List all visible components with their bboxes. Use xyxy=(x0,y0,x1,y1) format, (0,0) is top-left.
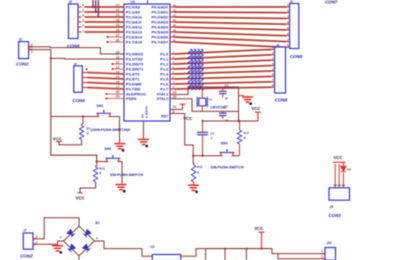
svg-text:P0.5/AD5: P0.5/AD5 xyxy=(152,30,170,34)
svg-text:P2.4/A12: P2.4/A12 xyxy=(126,25,142,29)
wire filter cap drop 2 xyxy=(224,249,226,260)
stub wires pins 27 28 xyxy=(107,36,124,38)
ground below U1 xyxy=(138,138,149,140)
svg-text:CON8: CON8 xyxy=(290,54,303,59)
svg-text:C1: C1 xyxy=(225,84,229,88)
connector J5 pin stubs and numbers xyxy=(286,6,289,8)
svg-text:R13: R13 xyxy=(99,166,105,170)
svg-text:J12: J12 xyxy=(326,241,332,245)
connector J7 pin stubs xyxy=(33,238,37,240)
svg-text:CON2: CON2 xyxy=(20,253,33,258)
wires U1 P0 port to connector J5 xyxy=(170,6,175,8)
wire bridge left vertex to ground xyxy=(58,241,64,245)
push switch SW3 xyxy=(105,157,120,159)
svg-text:P2.6/A14: P2.6/A14 xyxy=(126,35,143,39)
svg-text:4: 4 xyxy=(286,21,289,25)
svg-text:P3.3/INT1: P3.3/INT1 xyxy=(126,67,144,71)
svg-text:PSEN: PSEN xyxy=(126,97,137,101)
wire VCC rail to connector J12 pin1 xyxy=(272,249,325,254)
wire vertical from top edge to P2.2 node xyxy=(97,0,99,17)
svg-text:J6: J6 xyxy=(276,43,280,47)
svg-text:J1: J1 xyxy=(19,38,23,42)
connector J6 CON8 body lower right xyxy=(275,47,286,93)
regulator U2 pin stubs xyxy=(147,255,152,257)
wire long rail from J1 down to switch SW3 area xyxy=(51,58,97,161)
wire J1 pin2 to U1 RXD pin10 xyxy=(33,47,124,54)
svg-text:P1.4: P1.4 xyxy=(160,72,169,76)
svg-text:B1: B1 xyxy=(95,221,99,225)
svg-text:VCC: VCC xyxy=(254,226,263,231)
svg-text:P1.7: P1.7 xyxy=(160,87,168,91)
svg-text:E 89C51: E 89C51 xyxy=(145,106,149,118)
svg-text:-: - xyxy=(82,254,83,258)
svg-text:P2.0/A8: P2.0/A8 xyxy=(126,5,141,9)
wire R1 to VCC stub xyxy=(59,140,82,145)
resistor R1 xyxy=(82,117,84,125)
svg-text:2: 2 xyxy=(286,9,289,13)
svg-text:R16: R16 xyxy=(197,165,203,169)
wire filter cap drop 3 xyxy=(245,249,247,260)
svg-text:19: 19 xyxy=(173,90,177,94)
svg-text:+: + xyxy=(60,236,62,240)
svg-text:2: 2 xyxy=(81,24,84,28)
resistor R17 xyxy=(237,130,241,144)
mcu U1 VCC pin 40 wire to top edge xyxy=(147,0,149,4)
wire U1 GND pin20 down xyxy=(143,121,145,139)
wire J1 pin1 to rail and U1 TXD pin11 xyxy=(33,50,124,59)
wire RST pin9 down to reset network xyxy=(170,114,194,166)
ground for crystal caps xyxy=(239,95,245,97)
svg-text:XTAL2: XTAL2 xyxy=(156,97,168,101)
svg-text:P0.4/AD4: P0.4/AD4 xyxy=(152,25,170,29)
svg-text:P2.7/A15: P2.7/A15 xyxy=(126,40,143,44)
connector J7 CON2 body xyxy=(23,233,33,249)
svg-text:CON4: CON4 xyxy=(72,98,85,103)
wire U2 output to VCC rail xyxy=(186,249,206,257)
svg-text:CON2: CON2 xyxy=(16,61,29,66)
wires J4 to U1 P3 pins 14-17 xyxy=(82,72,87,74)
svg-text:P3.0/RXD: P3.0/RXD xyxy=(126,52,143,56)
svg-text:P1.1: P1.1 xyxy=(160,57,169,61)
bridge rectifier B1 diamond xyxy=(64,226,95,256)
wires J2 to U1 P2 pins xyxy=(85,6,125,8)
wire R16 to ground xyxy=(193,182,195,185)
svg-text:J7: J7 xyxy=(23,229,27,233)
connector J1 CON2 body xyxy=(19,42,29,59)
svg-text:P3.4/T0: P3.4/T0 xyxy=(126,72,139,76)
push switch SW2 xyxy=(96,112,111,114)
svg-text:(2SW-PUSH-SWITCH(6: (2SW-PUSH-SWITCH(6 xyxy=(91,128,131,132)
svg-text:P1.3: P1.3 xyxy=(160,67,168,71)
capacitor C2 xyxy=(219,112,227,114)
svg-text:ALE/PROG: ALE/PROG xyxy=(126,92,146,96)
svg-text:2: 2 xyxy=(35,234,38,238)
crystal Y1 xyxy=(199,98,206,106)
svg-text:1P: 1P xyxy=(225,118,228,122)
capacitor C1 xyxy=(219,90,227,92)
svg-text:SW4: SW4 xyxy=(221,142,228,146)
svg-text:CON3: CON3 xyxy=(328,213,341,218)
svg-text:P0.0/AD0: P0.0/AD0 xyxy=(152,5,169,9)
connector J4 pin1 marker xyxy=(86,68,88,70)
svg-text:U1: U1 xyxy=(131,0,136,4)
svg-text:U2: U2 xyxy=(150,245,154,249)
connector J1 pin stubs xyxy=(29,46,34,48)
svg-text:P2.1/A9: P2.1/A9 xyxy=(126,10,140,14)
wires U1 P1 port to connector J6 xyxy=(170,53,175,55)
svg-text:D5: D5 xyxy=(347,167,351,171)
wire EA pin31 to VCC tick xyxy=(170,109,183,111)
svg-text:-: - xyxy=(74,222,75,226)
resistor R16 xyxy=(191,165,195,182)
wire SW3 right post to ground xyxy=(120,162,122,185)
svg-text:VCC: VCC xyxy=(53,136,62,141)
wires J9 pins up xyxy=(334,164,336,188)
push switch SW4 xyxy=(220,152,235,154)
wire XTAL1 to crystal top rail xyxy=(170,94,175,96)
svg-text:P0.6/AD6: P0.6/AD6 xyxy=(152,35,169,39)
svg-text:RST: RST xyxy=(161,115,169,119)
svg-text:4: 4 xyxy=(271,62,274,66)
connector J6 pin stubs and numbers xyxy=(271,48,274,50)
wire vertical from top edge to P2.1 node xyxy=(95,0,97,12)
svg-text:+: + xyxy=(96,236,98,240)
regulator U2 7805 body xyxy=(152,255,181,260)
svg-text:P1.6: P1.6 xyxy=(160,82,168,86)
bridge diode D1 xyxy=(67,229,75,237)
svg-text:P3.6/WR: P3.6/WR xyxy=(126,82,142,86)
wire rail to SW2 xyxy=(51,116,97,118)
wire bridge bottom vertex down xyxy=(78,256,80,260)
svg-text:P2.2/A10: P2.2/A10 xyxy=(126,15,142,19)
bridge diode D4 xyxy=(68,244,76,252)
bridge diode D3 xyxy=(83,244,91,252)
wire to connector J12 pin2 xyxy=(278,254,325,259)
ground below SW2 xyxy=(114,143,125,145)
connector J4 CON4 body xyxy=(74,66,83,93)
svg-text:31: 31 xyxy=(173,105,177,109)
svg-text:R17: R17 xyxy=(244,131,250,135)
svg-text:SW-PUSH-SWITCH: SW-PUSH-SWITCH xyxy=(110,173,143,177)
svg-text:P2.5/A13: P2.5/A13 xyxy=(126,30,142,34)
svg-text:CON7: CON7 xyxy=(325,0,338,4)
connector J12 body xyxy=(325,248,336,260)
wire vertical from top edge to P2.0 node xyxy=(92,0,94,7)
svg-text:J4: J4 xyxy=(74,62,78,66)
svg-text:P0.3/AD3: P0.3/AD3 xyxy=(152,20,169,24)
pin entry ticks on J9 xyxy=(334,184,337,186)
svg-text:P2.3/A11: P2.3/A11 xyxy=(126,20,143,24)
svg-text:P3.1/TXD: P3.1/TXD xyxy=(126,57,143,61)
ground below R16 xyxy=(188,184,199,186)
connector J2 CON6 body xyxy=(69,4,79,39)
svg-text:P3.7/RD: P3.7/RD xyxy=(126,87,141,91)
svg-text:VCC: VCC xyxy=(333,155,342,160)
wire J7 pin1 to ground xyxy=(37,244,58,245)
svg-text:EA: EA xyxy=(141,113,145,118)
svg-text:C2: C2 xyxy=(224,105,228,109)
stub wires ALE PSEN pins 30 29 xyxy=(106,93,124,95)
power VCC stub bottom xyxy=(261,232,263,248)
svg-text:VCC: VCC xyxy=(251,106,260,111)
wire XTAL2 to crystal bottom rail xyxy=(170,98,175,100)
svg-text:J9: J9 xyxy=(330,205,334,209)
svg-text:P3.5/T1: P3.5/T1 xyxy=(126,77,140,81)
wire SW2 to ground xyxy=(111,117,119,144)
wire crystal right vertical xyxy=(238,87,240,121)
svg-text:VCC: VCC xyxy=(76,196,85,201)
svg-text:P3.2/INT0: P3.2/INT0 xyxy=(126,62,143,66)
svg-text:J2: J2 xyxy=(69,0,73,4)
wire reset bottom rail xyxy=(193,155,220,157)
svg-text:2: 2 xyxy=(320,255,323,259)
svg-text:2: 2 xyxy=(30,43,33,47)
svg-text:SW-PUSH-SWITCH: SW-PUSH-SWITCH xyxy=(211,166,244,170)
ground near J7 xyxy=(52,245,63,247)
svg-text:J5: J5 xyxy=(290,0,294,4)
capacitor C3 xyxy=(197,131,208,133)
wire J7 pin2 to bridge top xyxy=(37,218,79,239)
power VCC bar above J9 xyxy=(333,161,346,163)
ground below SW3 xyxy=(116,184,127,186)
connector J5 CON8 body upper right xyxy=(290,4,299,49)
wire bridge right vertex to regulator U2 xyxy=(95,241,148,256)
wire bottom VCC rail xyxy=(206,248,272,250)
svg-text:P1.5: P1.5 xyxy=(160,77,169,81)
mcu U1 AT89C51 body xyxy=(124,4,170,121)
wire filter cap drop 1 xyxy=(205,249,207,260)
svg-text:P0.2/AD2: P0.2/AD2 xyxy=(152,15,169,19)
svg-text:XTAL1: XTAL1 xyxy=(156,93,168,97)
svg-text:Y1: Y1 xyxy=(209,98,213,102)
connector J2 pin stubs and numbers xyxy=(78,6,82,8)
connector J9 CON3 body xyxy=(329,188,350,200)
connector J12 pin stubs xyxy=(322,253,326,255)
svg-text:P1.0: P1.0 xyxy=(160,52,168,56)
svg-text:P1.2: P1.2 xyxy=(160,62,168,66)
wire R13 to VCC stub below xyxy=(80,182,96,193)
svg-text:4: 4 xyxy=(81,14,84,18)
svg-text:2: 2 xyxy=(271,51,274,55)
svg-text:1P: 1P xyxy=(225,97,228,101)
bridge diode D2 xyxy=(83,229,91,237)
svg-text:SW2: SW2 xyxy=(96,104,103,108)
svg-text:C3: C3 xyxy=(210,131,214,135)
resistor R13 xyxy=(96,162,98,167)
svg-text:P0.1/AD1: P0.1/AD1 xyxy=(152,10,170,14)
svg-text:CON8: CON8 xyxy=(275,98,288,103)
svg-text:P0.7/AD7: P0.7/AD7 xyxy=(152,40,169,44)
wire reset top rail xyxy=(202,120,258,122)
stub wires pins 12 13 xyxy=(112,63,124,65)
led D5 on J9 pin3 wire xyxy=(341,162,346,171)
resistor network RP1 wavy pull-ups on P1 bus xyxy=(188,49,192,90)
svg-text:SW3: SW3 xyxy=(104,147,111,151)
wire rail to SW3 left post xyxy=(97,161,106,163)
